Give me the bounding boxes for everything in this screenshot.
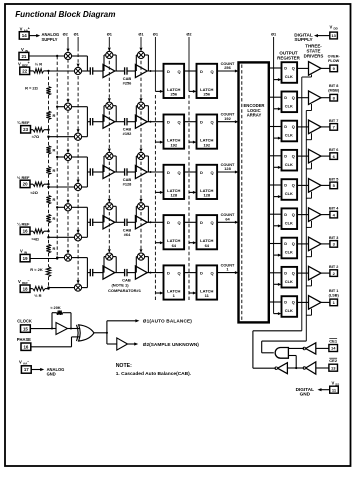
svg-text:GND: GND bbox=[47, 371, 56, 376]
svg-text:22: 22 bbox=[22, 69, 27, 74]
svg-text:OVER-: OVER- bbox=[328, 54, 341, 58]
svg-text:V: V bbox=[19, 360, 22, 365]
svg-text:Q: Q bbox=[292, 300, 295, 305]
svg-text:≈ 20K: ≈ 20K bbox=[50, 305, 61, 310]
svg-text:BIT 3: BIT 3 bbox=[329, 236, 338, 240]
svg-text:192: 192 bbox=[170, 142, 177, 147]
svg-text:D: D bbox=[284, 300, 287, 305]
svg-text:14: 14 bbox=[22, 33, 27, 38]
svg-text:V: V bbox=[330, 24, 333, 29]
svg-text:ARRAY: ARRAY bbox=[247, 113, 262, 118]
svg-text:Ø1: Ø1 bbox=[74, 31, 80, 36]
svg-text:V: V bbox=[18, 279, 21, 284]
svg-text:−: − bbox=[27, 359, 29, 363]
svg-text:D: D bbox=[284, 241, 287, 246]
svg-text:V: V bbox=[18, 62, 21, 67]
svg-text:D: D bbox=[167, 270, 170, 275]
svg-text:CLK: CLK bbox=[285, 308, 293, 313]
svg-text:64: 64 bbox=[172, 243, 177, 248]
svg-text:Ø2: Ø2 bbox=[63, 31, 69, 36]
svg-text:D: D bbox=[284, 95, 287, 100]
svg-text:V: V bbox=[20, 248, 23, 253]
svg-text:Ø1(AUTO BALANCE): Ø1(AUTO BALANCE) bbox=[143, 319, 192, 324]
svg-text:PHASE: PHASE bbox=[17, 337, 31, 342]
svg-text:BIT 5: BIT 5 bbox=[329, 177, 338, 181]
svg-text:R ≈ 2K: R ≈ 2K bbox=[30, 267, 43, 272]
svg-text:#192: #192 bbox=[123, 131, 132, 136]
svg-text:Q: Q bbox=[178, 220, 181, 225]
svg-text:Q: Q bbox=[292, 153, 295, 158]
svg-text:D: D bbox=[200, 170, 203, 175]
svg-text:Q: Q bbox=[292, 270, 295, 275]
svg-text:D: D bbox=[284, 124, 287, 129]
svg-text:BIT 1: BIT 1 bbox=[329, 289, 338, 293]
svg-text:CLK: CLK bbox=[285, 191, 293, 196]
svg-text:16: 16 bbox=[23, 229, 28, 234]
svg-text:#256: #256 bbox=[123, 81, 132, 86]
svg-text:Q: Q bbox=[211, 120, 214, 125]
svg-text:D: D bbox=[167, 120, 170, 125]
svg-text:R: R bbox=[52, 147, 55, 152]
svg-text:D: D bbox=[284, 183, 287, 188]
svg-text:D: D bbox=[200, 220, 203, 225]
svg-text:½ R: ½ R bbox=[34, 293, 41, 298]
svg-text:Ø1: Ø1 bbox=[138, 31, 144, 36]
svg-text:#64: #64 bbox=[124, 232, 131, 237]
svg-text:D: D bbox=[284, 153, 287, 158]
svg-text:Q: Q bbox=[178, 69, 181, 74]
svg-text:CE1: CE1 bbox=[329, 339, 338, 344]
svg-text:D: D bbox=[167, 170, 170, 175]
svg-text:SUPPLY: SUPPLY bbox=[42, 37, 58, 42]
svg-text:64: 64 bbox=[205, 243, 210, 248]
svg-text:D: D bbox=[200, 69, 203, 74]
svg-text:Q: Q bbox=[211, 69, 214, 74]
svg-text:R: R bbox=[52, 246, 55, 251]
svg-text:Ø2(SAMPLE UNKNOWN): Ø2(SAMPLE UNKNOWN) bbox=[143, 342, 199, 347]
svg-text:256: 256 bbox=[224, 65, 231, 70]
svg-text:Q: Q bbox=[292, 124, 295, 129]
svg-text:½ REF: ½ REF bbox=[17, 175, 30, 180]
svg-text:D: D bbox=[200, 270, 203, 275]
svg-text:SUPPLY: SUPPLY bbox=[294, 37, 313, 42]
svg-text:FLOW: FLOW bbox=[328, 59, 340, 63]
svg-text:COMPARATOR#1: COMPARATOR#1 bbox=[108, 288, 142, 293]
svg-text:Q: Q bbox=[292, 241, 295, 246]
svg-text:#128: #128 bbox=[123, 182, 132, 187]
svg-text:V: V bbox=[21, 47, 24, 52]
svg-text:V: V bbox=[20, 26, 23, 31]
svg-text:+: + bbox=[28, 61, 30, 65]
svg-text:17: 17 bbox=[24, 367, 29, 372]
svg-text:256: 256 bbox=[203, 92, 210, 97]
svg-text:¾ REF: ¾ REF bbox=[17, 120, 30, 125]
svg-text:128: 128 bbox=[170, 193, 177, 198]
svg-text:16: 16 bbox=[23, 344, 28, 349]
svg-text:≈7Ω: ≈7Ω bbox=[32, 134, 39, 139]
svg-text:Functional Block Diagram: Functional Block Diagram bbox=[15, 10, 115, 19]
svg-text:CE2: CE2 bbox=[329, 358, 338, 363]
svg-text:V: V bbox=[332, 381, 335, 386]
svg-text:≈4Ω: ≈4Ω bbox=[32, 237, 39, 242]
svg-text:¼ REF: ¼ REF bbox=[17, 222, 30, 227]
svg-text:R: R bbox=[52, 216, 55, 221]
svg-text:(NOTE 1): (NOTE 1) bbox=[111, 282, 129, 287]
svg-text:13: 13 bbox=[331, 365, 336, 370]
svg-text:1. Cascaded Auto Balance(CAB).: 1. Cascaded Auto Balance(CAB). bbox=[116, 371, 192, 377]
svg-text:BIT 2: BIT 2 bbox=[329, 265, 338, 269]
svg-text:Ø1: Ø1 bbox=[107, 31, 113, 36]
svg-text:D: D bbox=[284, 212, 287, 217]
svg-text:R: R bbox=[52, 197, 55, 202]
svg-text:REGISTER: REGISTER bbox=[277, 55, 300, 60]
svg-text:192: 192 bbox=[224, 116, 231, 121]
svg-text:20: 20 bbox=[23, 182, 28, 187]
svg-text:Q: Q bbox=[178, 120, 181, 125]
svg-text:D: D bbox=[167, 69, 170, 74]
svg-text:R: R bbox=[52, 168, 55, 173]
svg-text:Q: Q bbox=[292, 66, 295, 71]
svg-text:BIT 7: BIT 7 bbox=[329, 119, 338, 123]
svg-text:GND: GND bbox=[300, 392, 311, 397]
svg-text:(MSB): (MSB) bbox=[328, 89, 340, 93]
svg-text:NOTE:: NOTE: bbox=[116, 363, 132, 369]
svg-text:CLK: CLK bbox=[285, 250, 293, 255]
svg-text:CLOCK: CLOCK bbox=[17, 319, 32, 324]
svg-text:Q: Q bbox=[211, 170, 214, 175]
svg-text:Q: Q bbox=[211, 220, 214, 225]
svg-text:192: 192 bbox=[203, 142, 210, 147]
svg-text:256: 256 bbox=[170, 92, 177, 97]
svg-text:Q: Q bbox=[178, 170, 181, 175]
svg-text:BIT 6: BIT 6 bbox=[329, 148, 338, 152]
svg-text:Q: Q bbox=[178, 270, 181, 275]
svg-text:D: D bbox=[200, 120, 203, 125]
svg-text:13: 13 bbox=[331, 33, 336, 38]
svg-text:CLK: CLK bbox=[285, 104, 293, 109]
svg-text:Q: Q bbox=[211, 270, 214, 275]
svg-text:Q: Q bbox=[292, 95, 295, 100]
svg-text:D: D bbox=[284, 270, 287, 275]
svg-text:CLK: CLK bbox=[285, 162, 293, 167]
svg-text:CLK: CLK bbox=[285, 279, 293, 284]
svg-text:DRIVERS: DRIVERS bbox=[304, 53, 324, 58]
svg-text:18: 18 bbox=[23, 286, 28, 291]
svg-text:+: + bbox=[28, 26, 30, 30]
svg-text:Ø1: Ø1 bbox=[153, 31, 159, 36]
svg-text:CLK: CLK bbox=[285, 133, 293, 138]
svg-text:R: R bbox=[52, 113, 55, 118]
svg-text:−: − bbox=[28, 279, 30, 283]
svg-text:128: 128 bbox=[224, 166, 231, 171]
svg-text:D: D bbox=[167, 220, 170, 225]
svg-text:Q: Q bbox=[292, 183, 295, 188]
svg-text:Q: Q bbox=[292, 212, 295, 217]
svg-text:21: 21 bbox=[21, 54, 26, 59]
svg-text:½ R: ½ R bbox=[35, 61, 42, 66]
svg-text:R ≈ 2Ω: R ≈ 2Ω bbox=[25, 85, 39, 90]
svg-text:19: 19 bbox=[23, 256, 28, 261]
svg-text:≈2Ω: ≈2Ω bbox=[30, 190, 37, 195]
svg-text:15: 15 bbox=[23, 326, 28, 331]
svg-text:23: 23 bbox=[23, 127, 28, 132]
svg-text:D: D bbox=[284, 66, 287, 71]
svg-text:(LSB): (LSB) bbox=[329, 293, 340, 297]
svg-text:Ø2: Ø2 bbox=[186, 31, 192, 36]
svg-text:128: 128 bbox=[203, 193, 210, 198]
svg-text:Ø1: Ø1 bbox=[271, 31, 277, 36]
svg-text:CLK: CLK bbox=[285, 220, 293, 225]
svg-text:14: 14 bbox=[331, 346, 336, 351]
svg-text:CLK: CLK bbox=[285, 74, 293, 79]
svg-text:BIT 4: BIT 4 bbox=[329, 207, 339, 211]
